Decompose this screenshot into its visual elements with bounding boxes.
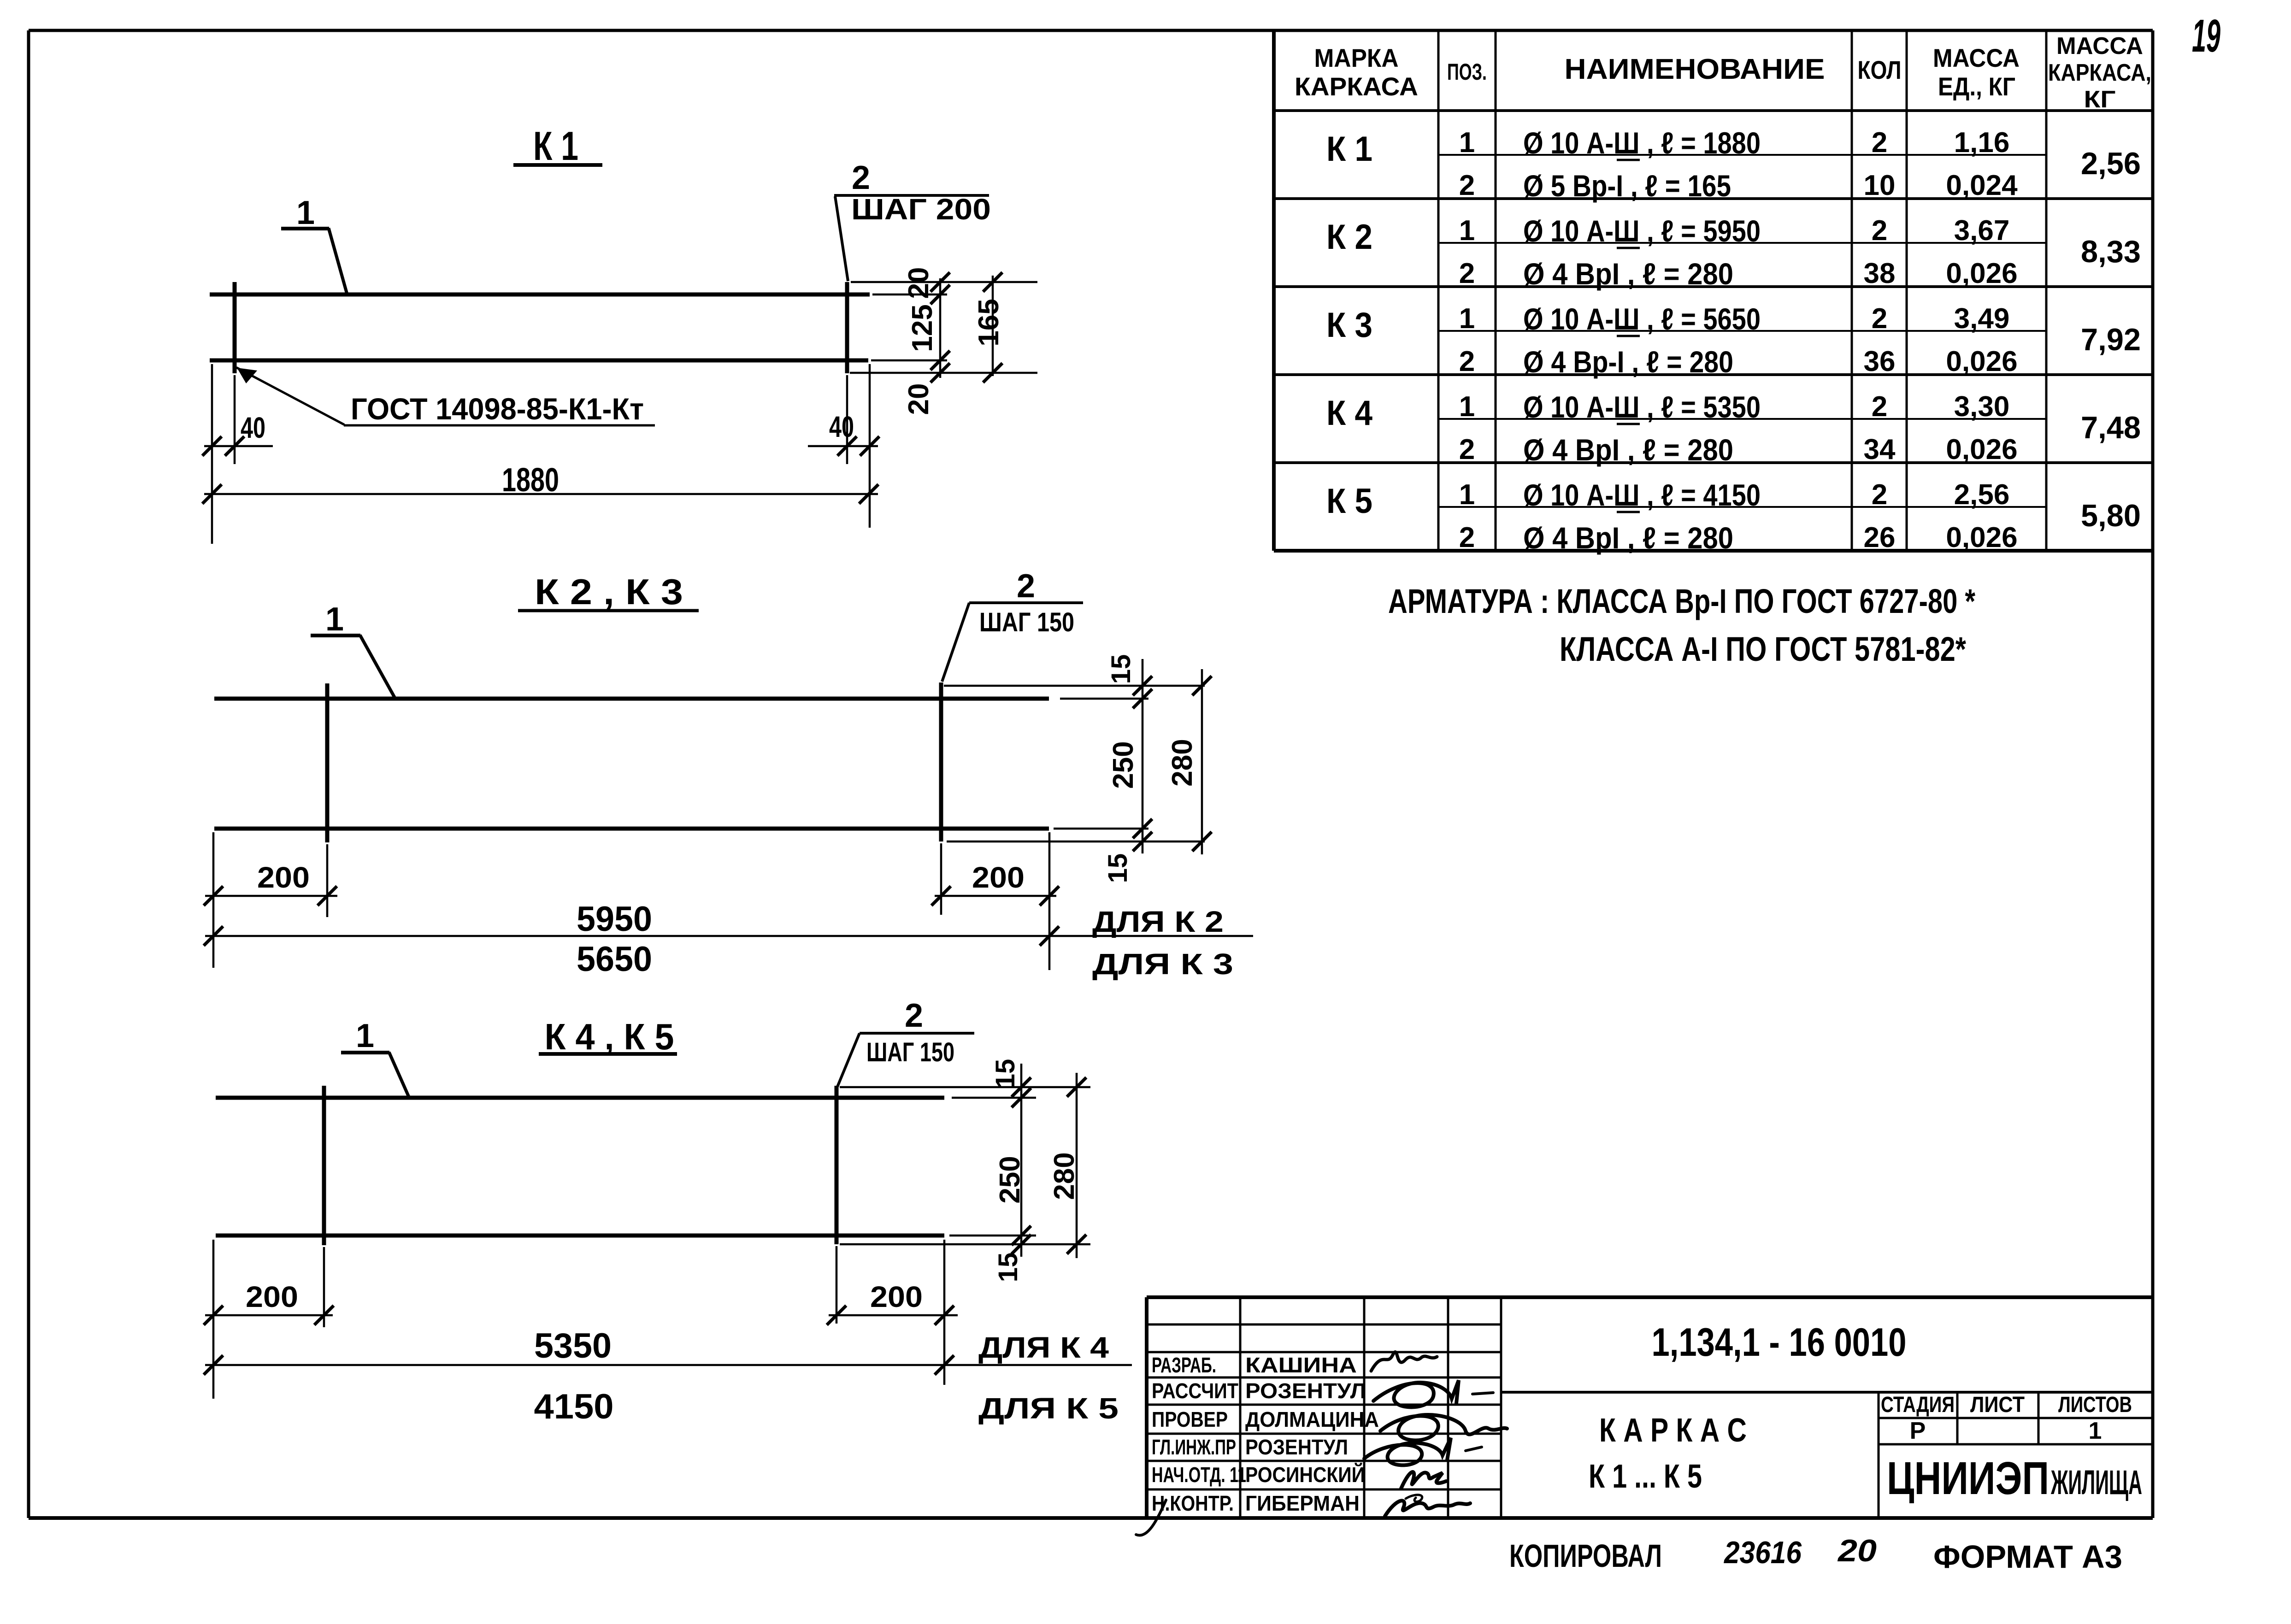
svg-text:ГЛ.ИНЖ.ПР: ГЛ.ИНЖ.ПР bbox=[1152, 1435, 1236, 1459]
svg-text:0,024: 0,024 bbox=[1946, 170, 2018, 201]
svg-text:ГОСТ 14098-85-К1-Кт: ГОСТ 14098-85-К1-Кт bbox=[351, 392, 644, 426]
svg-text:165: 165 bbox=[973, 299, 1005, 346]
svg-text:200: 200 bbox=[257, 861, 310, 894]
svg-text:2: 2 bbox=[1459, 170, 1475, 201]
svg-text:0,026: 0,026 bbox=[1946, 434, 2017, 465]
svg-text:1: 1 bbox=[1459, 303, 1475, 335]
svg-text:КАРКАСА: КАРКАСА bbox=[1295, 72, 1418, 101]
svg-text:200: 200 bbox=[246, 1280, 298, 1313]
svg-text:СТАДИЯ: СТАДИЯ bbox=[1881, 1393, 1955, 1417]
svg-text:2: 2 bbox=[1872, 479, 1887, 511]
svg-text:МАССА: МАССА bbox=[2056, 33, 2143, 59]
svg-text:1: 1 bbox=[296, 194, 315, 231]
svg-text:ДЛЯ К 5: ДЛЯ К 5 bbox=[978, 1392, 1119, 1425]
svg-text:20: 20 bbox=[903, 383, 935, 415]
svg-text:36: 36 bbox=[1864, 346, 1896, 377]
svg-text:1,16: 1,16 bbox=[1954, 127, 2010, 159]
svg-text:АРМАТУРА : КЛАССА Вр-I ПО ГОС: АРМАТУРА : КЛАССА Вр-I ПО ГОСТ 6727-80 * bbox=[1388, 582, 1975, 620]
svg-text:10: 10 bbox=[1864, 170, 1896, 201]
svg-text:200: 200 bbox=[972, 861, 1025, 894]
svg-text:КОПИРОВАЛ: КОПИРОВАЛ bbox=[1509, 1538, 1662, 1574]
svg-text:20: 20 bbox=[1837, 1533, 1877, 1568]
svg-text:5,80: 5,80 bbox=[2081, 498, 2141, 533]
svg-text:1: 1 bbox=[1459, 479, 1475, 511]
svg-text:К 1: К 1 bbox=[1326, 129, 1372, 169]
svg-text:38: 38 bbox=[1864, 258, 1896, 289]
svg-text:2: 2 bbox=[1459, 258, 1475, 289]
svg-text:3,30: 3,30 bbox=[1954, 391, 2010, 423]
svg-text:1,134,1 - 16 0010: 1,134,1 - 16 0010 bbox=[1652, 1320, 1907, 1365]
svg-text:КОЛ: КОЛ bbox=[1858, 55, 1902, 84]
svg-text:0,026: 0,026 bbox=[1946, 346, 2017, 377]
svg-text:Ø 4 Вр-I , ℓ = 280: Ø 4 Вр-I , ℓ = 280 bbox=[1523, 345, 1733, 379]
svg-text:2: 2 bbox=[852, 159, 870, 196]
svg-text:К А Р К А С: К А Р К А С bbox=[1599, 1412, 1747, 1449]
svg-text:Ø 10 А-Ш , ℓ = 4150: Ø 10 А-Ш , ℓ = 4150 bbox=[1523, 478, 1761, 512]
svg-text:7,48: 7,48 bbox=[2081, 410, 2141, 445]
svg-text:15: 15 bbox=[990, 1059, 1020, 1089]
svg-text:2: 2 bbox=[1872, 303, 1887, 335]
svg-text:ЛИСТОВ: ЛИСТОВ bbox=[2058, 1393, 2132, 1417]
svg-text:2,56: 2,56 bbox=[2081, 146, 2141, 181]
svg-text:5950: 5950 bbox=[577, 900, 652, 939]
svg-text:3,67: 3,67 bbox=[1954, 215, 2010, 247]
svg-text:5350: 5350 bbox=[534, 1326, 612, 1365]
svg-text:7,92: 7,92 bbox=[2081, 322, 2141, 357]
svg-text:1: 1 bbox=[1459, 391, 1475, 423]
svg-text:РОЗЕНТУЛ: РОЗЕНТУЛ bbox=[1245, 1435, 1348, 1459]
svg-text:К 3: К 3 bbox=[1326, 306, 1372, 345]
svg-text:2,56: 2,56 bbox=[1954, 479, 2010, 511]
svg-text:125: 125 bbox=[907, 304, 938, 352]
svg-text:ДЛЯ К 3: ДЛЯ К 3 bbox=[1092, 947, 1233, 981]
svg-text:1: 1 bbox=[1459, 127, 1475, 159]
svg-text:ШАГ 150: ШАГ 150 bbox=[866, 1037, 954, 1067]
svg-text:РАЗРАБ.: РАЗРАБ. bbox=[1152, 1353, 1216, 1377]
svg-text:20: 20 bbox=[903, 267, 935, 299]
svg-text:Ø 10 А-Ш , ℓ = 5350: Ø 10 А-Ш , ℓ = 5350 bbox=[1523, 390, 1761, 424]
svg-text:Ø 4 ВрI , ℓ = 280: Ø 4 ВрI , ℓ = 280 bbox=[1523, 257, 1733, 291]
svg-text:ДЛЯ К 4: ДЛЯ К 4 bbox=[978, 1331, 1109, 1364]
svg-text:ЛИСТ: ЛИСТ bbox=[1970, 1393, 2025, 1417]
svg-text:К 2 , К 3: К 2 , К 3 bbox=[535, 571, 683, 612]
svg-text:19: 19 bbox=[2192, 10, 2220, 62]
svg-text:1880: 1880 bbox=[502, 462, 559, 499]
svg-text:1: 1 bbox=[325, 601, 344, 638]
svg-text:15: 15 bbox=[1103, 853, 1133, 883]
svg-text:НАЧ.ОТД. 11: НАЧ.ОТД. 11 bbox=[1152, 1463, 1246, 1487]
svg-text:ШАГ 150: ШАГ 150 bbox=[979, 607, 1074, 637]
svg-text:КАШИНА: КАШИНА bbox=[1245, 1353, 1357, 1377]
svg-text:КГ: КГ bbox=[2084, 86, 2116, 113]
svg-text:ГИБЕРМАН: ГИБЕРМАН bbox=[1245, 1491, 1360, 1515]
svg-text:1: 1 bbox=[1459, 215, 1475, 247]
svg-text:26: 26 bbox=[1864, 522, 1896, 553]
svg-text:15: 15 bbox=[1106, 654, 1136, 684]
svg-text:ДЛЯ К 2: ДЛЯ К 2 bbox=[1092, 905, 1224, 938]
svg-text:ЖИЛИЩА: ЖИЛИЩА bbox=[2050, 1463, 2142, 1501]
svg-text:3,49: 3,49 bbox=[1954, 303, 2010, 335]
svg-text:К 1 ... К 5: К 1 ... К 5 bbox=[1589, 1458, 1702, 1495]
svg-text:РОЗЕНТУЛ: РОЗЕНТУЛ bbox=[1245, 1379, 1366, 1403]
svg-text:ДОЛМАЦИНА: ДОЛМАЦИНА bbox=[1245, 1407, 1379, 1431]
svg-text:Р: Р bbox=[1910, 1418, 1926, 1444]
svg-text:РОСИНСКИЙ: РОСИНСКИЙ bbox=[1245, 1463, 1365, 1487]
svg-text:К 4: К 4 bbox=[1326, 394, 1372, 433]
svg-text:4150: 4150 bbox=[534, 1387, 614, 1426]
svg-text:250: 250 bbox=[994, 1156, 1026, 1203]
svg-text:ШАГ 200: ШАГ 200 bbox=[851, 193, 991, 226]
svg-text:8,33: 8,33 bbox=[2081, 234, 2141, 269]
svg-text:280: 280 bbox=[1166, 739, 1198, 786]
svg-text:МАРКА: МАРКА bbox=[1314, 43, 1399, 72]
svg-text:40: 40 bbox=[829, 410, 854, 443]
svg-text:ПОЗ.: ПОЗ. bbox=[1447, 59, 1487, 85]
svg-text:200: 200 bbox=[870, 1280, 923, 1313]
svg-text:2: 2 bbox=[905, 997, 923, 1034]
svg-text:РАССЧИТ: РАССЧИТ bbox=[1152, 1379, 1238, 1403]
svg-text:К 5: К 5 bbox=[1326, 482, 1372, 521]
svg-text:К 1: К 1 bbox=[533, 123, 578, 169]
svg-text:0,026: 0,026 bbox=[1946, 258, 2017, 289]
svg-text:К 2: К 2 bbox=[1326, 218, 1372, 257]
svg-text:2: 2 bbox=[1872, 127, 1887, 159]
svg-text:Ø 5 Вр-I , ℓ = 165: Ø 5 Вр-I , ℓ = 165 bbox=[1523, 169, 1731, 203]
svg-text:5650: 5650 bbox=[577, 940, 652, 979]
svg-text:15: 15 bbox=[993, 1253, 1023, 1283]
svg-text:Ø 4 ВрI , ℓ = 280: Ø 4 ВрI , ℓ = 280 bbox=[1523, 433, 1733, 467]
svg-text:Ø 10 А-Ш , ℓ = 5650: Ø 10 А-Ш , ℓ = 5650 bbox=[1523, 302, 1761, 336]
svg-text:280: 280 bbox=[1048, 1152, 1080, 1200]
svg-text:2: 2 bbox=[1872, 215, 1887, 247]
svg-text:1: 1 bbox=[356, 1018, 374, 1054]
svg-text:КАРКАСА,: КАРКАСА, bbox=[2048, 59, 2151, 86]
svg-text:34: 34 bbox=[1864, 434, 1896, 465]
svg-text:Ø 10 А-Ш , ℓ = 1880: Ø 10 А-Ш , ℓ = 1880 bbox=[1523, 126, 1761, 160]
svg-text:2: 2 bbox=[1459, 346, 1475, 377]
svg-text:МАССА: МАССА bbox=[1933, 43, 2020, 72]
svg-text:Ø 10 А-Ш , ℓ = 5950: Ø 10 А-Ш , ℓ = 5950 bbox=[1523, 214, 1761, 248]
svg-text:К 4 , К 5: К 4 , К 5 bbox=[545, 1016, 674, 1057]
svg-text:ЦНИИЭП: ЦНИИЭП bbox=[1887, 1453, 2049, 1504]
svg-text:НАИМЕНОВАНИЕ: НАИМЕНОВАНИЕ bbox=[1565, 53, 1825, 85]
svg-text:2: 2 bbox=[1017, 568, 1035, 605]
svg-text:1: 1 bbox=[2089, 1418, 2102, 1444]
svg-text:КЛАССА А-I ПО ГОСТ 5781-82*: КЛАССА А-I ПО ГОСТ 5781-82* bbox=[1560, 630, 1966, 668]
svg-text:0,026: 0,026 bbox=[1946, 522, 2017, 553]
svg-text:2: 2 bbox=[1459, 522, 1475, 553]
svg-text:ПРОВЕР: ПРОВЕР bbox=[1152, 1407, 1228, 1431]
svg-text:23616: 23616 bbox=[1723, 1535, 1802, 1570]
svg-text:250: 250 bbox=[1107, 741, 1139, 788]
svg-text:2: 2 bbox=[1872, 391, 1887, 423]
svg-text:Ø 4 ВрI , ℓ = 280: Ø 4 ВрI , ℓ = 280 bbox=[1523, 521, 1733, 555]
svg-text:2: 2 bbox=[1459, 434, 1475, 465]
svg-text:40: 40 bbox=[241, 411, 265, 444]
svg-text:ЕД., КГ: ЕД., КГ bbox=[1938, 72, 2015, 101]
svg-text:ФОРМАТ А3: ФОРМАТ А3 bbox=[1933, 1539, 2122, 1575]
